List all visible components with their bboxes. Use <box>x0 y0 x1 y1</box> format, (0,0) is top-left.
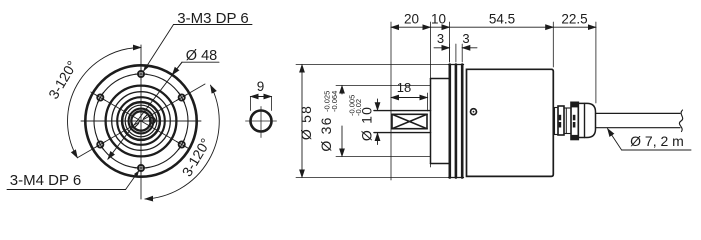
ext line A shaft end <box>390 22 392 180</box>
boss circle D36 <box>106 86 177 157</box>
bolt hole 30deg <box>177 92 187 102</box>
angle dim arc 90-210 <box>68 48 141 158</box>
D58 dim <box>296 64 448 66</box>
dim text 20 <box>404 12 419 27</box>
gland neck A <box>555 108 559 135</box>
label D48 <box>186 48 217 64</box>
cable bottom <box>596 127 681 129</box>
ext line D body rear <box>552 22 554 67</box>
circle D30 <box>112 92 171 151</box>
D48 diameter leader <box>108 62 182 159</box>
bolt hole 330deg <box>177 139 187 149</box>
set screw circle <box>150 118 156 124</box>
set screw side <box>471 109 477 115</box>
top dim line <box>391 26 431 28</box>
svg-text:22.5: 22.5 <box>561 12 587 27</box>
svg-text:3: 3 <box>437 31 444 46</box>
ext line C flange front <box>449 22 451 62</box>
dim text 22.5 <box>561 12 587 27</box>
dim text 10 <box>431 12 446 27</box>
svg-text:3-120°: 3-120° <box>45 58 80 102</box>
boss bottom edge <box>431 163 450 165</box>
bolt hole bottom M4 <box>135 162 147 174</box>
dim text 3 second <box>462 31 469 46</box>
vertical centerline <box>140 45 142 199</box>
D10 dim <box>377 99 379 110</box>
label 3-M3 DP 6 <box>177 10 248 27</box>
dim 9 <box>250 97 252 111</box>
gland neck B <box>564 108 571 134</box>
svg-text:20: 20 <box>404 12 419 27</box>
body outline <box>467 69 554 176</box>
cable label <box>630 133 684 149</box>
label 3-120 bottom-right <box>179 135 214 179</box>
3mm ext lines <box>449 44 451 62</box>
gland dome <box>578 103 595 137</box>
cable break <box>679 110 682 132</box>
svg-text:Ø 58: Ø 58 <box>298 105 314 140</box>
svg-text:54.5: 54.5 <box>489 12 515 27</box>
bolt hole 150deg <box>95 92 105 102</box>
svg-text:18: 18 <box>397 80 411 95</box>
3mm dim lines <box>434 47 450 49</box>
label 3-M4 DP 6 <box>10 172 81 189</box>
gland rib 1 <box>558 106 564 135</box>
shaft circle D10 <box>131 111 150 130</box>
dim text 3 <box>437 31 444 46</box>
circle D16 <box>125 105 157 137</box>
dim 18 <box>427 93 429 111</box>
boss face D43 <box>430 79 432 164</box>
flange disc line 3 <box>461 65 464 178</box>
circle D24 <box>117 97 165 145</box>
svg-text:10: 10 <box>431 12 446 27</box>
clamp box <box>392 114 427 128</box>
svg-text:3-M4 DP 6: 3-M4 DP 6 <box>10 172 81 189</box>
bolt hole top M3 <box>135 68 147 80</box>
svg-text:-0.02: -0.02 <box>354 99 363 116</box>
svg-text:3: 3 <box>462 31 469 46</box>
flange bottom edge <box>449 177 464 179</box>
diagonal centerline 30-210 <box>78 84 205 158</box>
svg-text:Ø 7, 2 m: Ø 7, 2 m <box>630 133 684 149</box>
svg-text:9: 9 <box>257 79 265 94</box>
outer circle flange D58 <box>85 65 196 176</box>
bolt hole 210deg <box>95 139 105 149</box>
dim text 54.5 <box>489 12 515 27</box>
svg-text:Ø 48: Ø 48 <box>186 48 217 64</box>
horizontal centerline <box>81 120 201 122</box>
shaft slot tick NE <box>144 115 148 119</box>
flange top edge <box>449 64 464 66</box>
flange disc line 2 <box>455 65 458 178</box>
D36 dim <box>336 85 431 87</box>
diagonal centerline 150-330 <box>91 92 190 149</box>
circle D12 <box>129 109 154 134</box>
shaft outline bottom <box>374 132 431 134</box>
flange disc line 1 <box>448 65 451 178</box>
ext line E gland end <box>595 22 597 103</box>
label 3-120 top-left <box>45 58 80 102</box>
bolt circle D48 <box>94 74 188 168</box>
boss top edge <box>431 78 450 80</box>
gland rib 2 <box>571 102 578 139</box>
shaft end circle <box>251 111 272 132</box>
shaft outline top <box>374 110 431 112</box>
svg-text:-0.064: -0.064 <box>330 91 339 112</box>
svg-text:Ø 36: Ø 36 <box>318 116 334 151</box>
circle D19 <box>122 102 160 140</box>
cable top <box>596 112 681 114</box>
ext line B boss face <box>430 22 432 167</box>
middle crosshair <box>246 120 277 122</box>
angle dim arc 30-270 <box>145 85 219 199</box>
shaft slot tick SW <box>135 124 139 128</box>
